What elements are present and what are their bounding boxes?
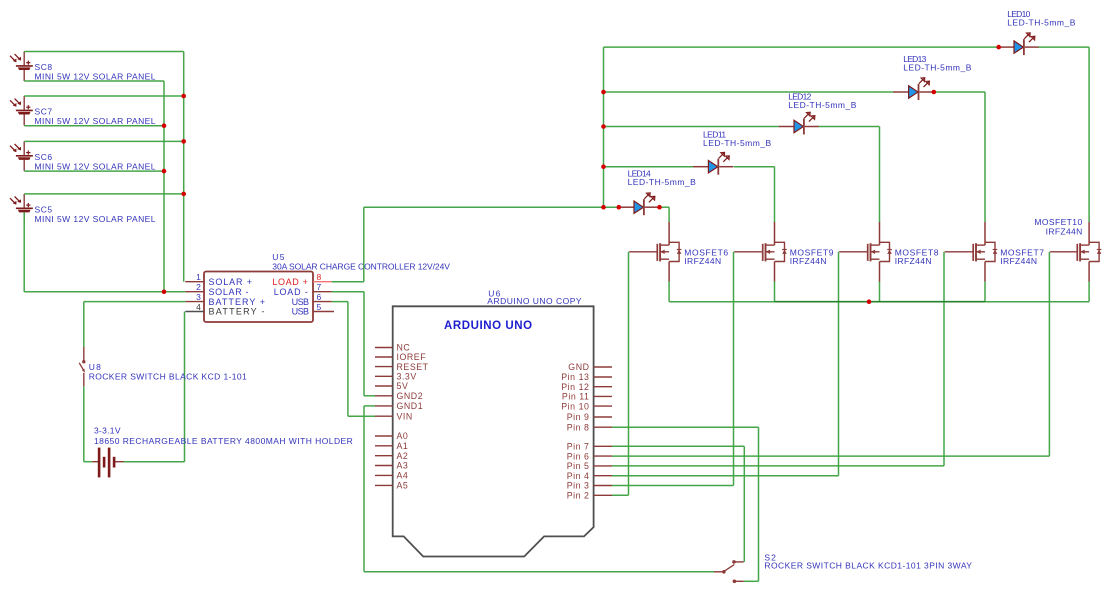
charge controller U5 box (204, 272, 313, 323)
junction LED bus 13 (601, 90, 606, 95)
U6 pin NC stub (375, 347, 393, 349)
wire Pin 3 right (612, 485, 734, 487)
junction LED14 anode (617, 205, 622, 210)
svg-text:Pin 5: Pin 5 (567, 461, 590, 471)
svg-text:4: 4 (196, 302, 201, 312)
U6 pin 3.3V stub (375, 375, 393, 377)
wire Pin 4 up to gate (838, 252, 840, 476)
wire SC5 + to bus (24, 193, 184, 195)
U6 pin RESET stub (375, 366, 393, 368)
wire Pin 6 up to gate (1048, 252, 1050, 456)
wire U5 pin8 LOAD+ right (332, 281, 364, 283)
svg-text:IRFZ44N: IRFZ44N (790, 256, 827, 266)
U6 pin Pin 4 stub (594, 475, 612, 477)
svg-text:A4: A4 (397, 471, 409, 481)
svg-text:Pin 4: Pin 4 (567, 471, 590, 481)
U5 pin 2 SOLAR - stub (185, 291, 204, 293)
solar cell SC8 (10, 52, 33, 82)
wire S2 throw B (744, 580, 759, 582)
svg-text:IRFZ44N: IRFZ44N (684, 256, 721, 266)
svg-text:NC: NC (397, 343, 411, 353)
wire SC6 - to bus (24, 170, 164, 172)
wire LED cathode to drain (934, 91, 985, 93)
U6 pin Pin 2 stub (594, 494, 612, 496)
junction source bus (867, 299, 872, 304)
wire battery left (84, 461, 92, 463)
wire MOSFET8 source drop (879, 282, 881, 302)
svg-text:Pin 2: Pin 2 (567, 491, 590, 501)
junction LED13 cathode (932, 90, 937, 95)
junction solar- pin2 (162, 290, 167, 295)
U6 pin IOREF stub (375, 356, 393, 358)
svg-text:ROCKER SWITCH BLACK KCD1-101 3: ROCKER SWITCH BLACK KCD1-101 3PIN 3WAY (764, 561, 972, 571)
U5 pin 1 SOLAR + stub (185, 281, 204, 283)
U6 pin A4 stub (375, 474, 393, 476)
wire LED11 anode (604, 166, 694, 168)
U6 pin GND2 stub (375, 395, 393, 397)
svg-text:ARDUINO UNO COPY: ARDUINO UNO COPY (487, 296, 582, 306)
wire SC8 - to bus (24, 80, 164, 82)
wire LOAD+ to LED bus (364, 206, 619, 208)
svg-text:1: 1 (196, 272, 201, 282)
solar cell SC6 (10, 141, 33, 171)
svg-text:3-3.1V: 3-3.1V (94, 426, 121, 436)
svg-text:IRFZ44N: IRFZ44N (1000, 256, 1037, 266)
wire drain drop (1088, 47, 1090, 222)
svg-text:LED-TH-5mm_B: LED-TH-5mm_B (1007, 18, 1076, 28)
wire LED12 anode (604, 126, 779, 128)
wire Pin7 down to S2 throw A (743, 446, 745, 562)
U5 pin 6 USB stub (313, 301, 332, 303)
svg-text:3.3V: 3.3V (397, 372, 417, 382)
svg-text:USB: USB (292, 307, 309, 317)
wire SC7 + to bus (24, 95, 184, 97)
wire Pin 5 right (612, 465, 944, 467)
U6 pin Pin 8 stub (594, 426, 612, 428)
wire Pin8 down to S2 (758, 427, 760, 581)
LED LED13 (893, 78, 933, 100)
wire Pin 3 up to gate (733, 252, 735, 486)
svg-text:A5: A5 (397, 481, 409, 491)
U6 pin A1 stub (375, 445, 393, 447)
svg-text:30A SOLAR CHARGE CONTROLLER 12: 30A SOLAR CHARGE CONTROLLER 12V/24V (272, 261, 450, 271)
svg-text:LED-TH-5mm_B: LED-TH-5mm_B (628, 177, 697, 187)
junction LED10 anode (996, 45, 1001, 50)
solar cell SC5 (10, 194, 33, 224)
transistor MOSFET6 IRFZ44N (629, 222, 681, 282)
svg-text:IRFZ44N: IRFZ44N (895, 256, 932, 266)
LED LED11 (693, 152, 733, 174)
wire source bus (669, 301, 1089, 303)
svg-text:MINI 5W 12V SOLAR PANEL: MINI 5W 12V SOLAR PANEL (35, 116, 156, 126)
svg-text:Pin 10: Pin 10 (561, 401, 589, 411)
wire SC7 - to bus (24, 125, 164, 127)
wire SC8 + to bus (24, 51, 184, 53)
svg-text:MINI 5W 12V SOLAR PANEL: MINI 5W 12V SOLAR PANEL (35, 72, 156, 82)
U6 pin 5V stub (375, 385, 393, 387)
wire pin7 down to GND2 (363, 292, 365, 396)
rocker switch S2 (714, 560, 744, 583)
U6 pin Pin 7 stub (594, 445, 612, 447)
wire solar - bus vertical (163, 81, 165, 292)
junction solar+ SC5 (181, 192, 186, 197)
wire solar + bus vertical (183, 52, 185, 282)
svg-text:Pin 12: Pin 12 (561, 382, 589, 392)
svg-text:GND2: GND2 (397, 391, 424, 401)
junction solar- SC7 (162, 123, 167, 128)
junction LED bus 12 (601, 124, 606, 129)
U5 pin 8 LOAD + stub (313, 281, 332, 283)
wire MOSFET7 source drop (984, 282, 986, 302)
svg-text:18650 RECHARGEABLE BATTERY 480: 18650 RECHARGEABLE BATTERY 4800MAH WITH … (94, 436, 353, 446)
wire GND1 left (364, 405, 375, 407)
wire U5 pin3 to switch (84, 301, 186, 303)
junction solar+ SC7 (181, 94, 186, 99)
U6 pin Pin 5 stub (594, 465, 612, 467)
wire LED cathode to drain (1039, 46, 1090, 48)
svg-text:LED-TH-5mm_B: LED-TH-5mm_B (903, 63, 972, 73)
svg-text:SOLAR -: SOLAR - (209, 287, 250, 297)
U6 pin A0 stub (375, 435, 393, 437)
wire LED13 anode (604, 91, 894, 93)
svg-text:BATTERY -: BATTERY - (209, 307, 266, 317)
U6 pin Pin 9 stub (594, 416, 612, 418)
svg-text:A2: A2 (397, 451, 409, 461)
wire LED cathode to drain (818, 126, 879, 128)
svg-text:GND: GND (568, 362, 589, 372)
svg-text:3: 3 (196, 292, 201, 302)
U6 pin Pin 12 stub (594, 386, 612, 388)
junction LED bus 14 (601, 205, 606, 210)
junction solar- SC6 (162, 169, 167, 174)
U5 pin 3 BATTERY + stub (185, 301, 204, 303)
LED LED12 (779, 112, 819, 134)
svg-text:LED-TH-5mm_B: LED-TH-5mm_B (788, 100, 857, 110)
svg-text:5: 5 (317, 302, 322, 312)
svg-text:Pin 13: Pin 13 (561, 372, 589, 382)
transistor MOSFET8 IRFZ44N (839, 222, 892, 282)
svg-text:USB: USB (292, 297, 309, 307)
U6 pin VIN stub (375, 415, 393, 417)
wire Pin 2 right (612, 494, 629, 496)
svg-text:ARDUINO UNO: ARDUINO UNO (444, 320, 533, 332)
svg-text:ROCKER SWITCH BLACK KCD 1-101: ROCKER SWITCH BLACK KCD 1-101 (89, 372, 248, 382)
svg-text:Pin 6: Pin 6 (567, 451, 590, 461)
U6 pin GND1 stub (375, 405, 393, 407)
wire LED cathode to drain (660, 206, 670, 208)
svg-text:Pin 3: Pin 3 (567, 481, 590, 491)
rocker switch U8 (79, 347, 85, 386)
Arduino U6 box (393, 306, 594, 556)
svg-text:U8: U8 (89, 362, 103, 372)
U6 pin GND stub (594, 366, 612, 368)
LED LED10 (999, 33, 1039, 55)
svg-text:MINI 5W 12V SOLAR PANEL: MINI 5W 12V SOLAR PANEL (35, 161, 156, 171)
wire LED cathode to drain (734, 166, 775, 168)
wire into VIN (348, 415, 375, 417)
wire SC5 - to U5 pin2 (24, 291, 185, 293)
wire drain drop (984, 92, 986, 222)
U6 pin Pin 10 stub (594, 405, 612, 407)
wire U5 pin7 right (332, 291, 364, 293)
svg-text:RESET: RESET (397, 362, 429, 372)
svg-text:6: 6 (317, 292, 322, 302)
svg-text:A3: A3 (397, 461, 409, 471)
U5 pin 7 LOAD - stub (313, 291, 332, 293)
svg-text:Pin 7: Pin 7 (567, 442, 590, 452)
svg-text:A0: A0 (397, 431, 409, 441)
solar cell SC7 (10, 96, 33, 126)
wire LED10 anode (604, 46, 999, 48)
wire drain drop (774, 167, 776, 222)
wire Pin7 right (612, 445, 744, 447)
svg-text:BATTERY +: BATTERY + (209, 297, 267, 307)
svg-text:LOAD -: LOAD - (274, 287, 309, 297)
U6 pin Pin 13 stub (594, 376, 612, 378)
wire into GND2 (364, 395, 375, 397)
wire MOSFET6 source drop (668, 282, 670, 302)
wire source bus overlap (775, 301, 986, 303)
wire SC5 - down (23, 212, 25, 291)
wire bottom to S2 common (364, 571, 714, 573)
svg-text:IOREF: IOREF (397, 352, 427, 362)
wire SC6 + to bus (24, 140, 184, 142)
wire Pin 6 right (612, 455, 1049, 457)
wire LOAD+ vertical up (363, 207, 365, 282)
svg-text:A1: A1 (397, 441, 409, 451)
junction solar+ SC6 (181, 139, 186, 144)
U6 pin Pin 3 stub (594, 485, 612, 487)
wire battery right (124, 461, 185, 463)
wire GND1 down (363, 406, 365, 572)
U5 pin 5 USB stub (313, 311, 334, 313)
wire Pin 4 right (612, 475, 839, 477)
svg-text:Pin 9: Pin 9 (567, 412, 590, 422)
battery BT 18650 (92, 448, 123, 478)
wire U5 pin6 right (332, 301, 348, 303)
U6 pin Pin 11 stub (594, 395, 612, 397)
transistor MOSFET7 IRFZ44N (945, 222, 998, 282)
wire Pin 5 up to gate (943, 252, 945, 466)
wire switch bottom vertical (83, 386, 85, 461)
U6 pin A2 stub (375, 455, 393, 457)
svg-text:SOLAR +: SOLAR + (209, 277, 253, 287)
U6 pin Pin 6 stub (594, 455, 612, 457)
svg-text:LOAD +: LOAD + (272, 277, 308, 287)
wire Pin 2 up to gate (628, 252, 630, 495)
svg-text:VIN: VIN (397, 411, 413, 421)
U6 pin A5 stub (375, 484, 393, 486)
svg-text:7: 7 (317, 282, 322, 292)
wire drain drop (879, 127, 881, 223)
U6 pin A3 stub (375, 465, 393, 467)
junction LED14 cathode (657, 205, 662, 210)
wire pin6 down to VIN (347, 302, 349, 417)
svg-text:2: 2 (196, 282, 201, 292)
wire switch top vertical (83, 302, 85, 347)
svg-text:GND1: GND1 (397, 401, 424, 411)
transistor MOSFET9 IRFZ44N (734, 222, 787, 282)
wire LED bus vertical (603, 47, 605, 207)
svg-text:MINI 5W 12V SOLAR PANEL: MINI 5W 12V SOLAR PANEL (35, 214, 156, 224)
wire MOSFET9 source drop (774, 282, 776, 302)
svg-text:Pin 8: Pin 8 (567, 422, 590, 432)
LED LED14 (619, 193, 659, 215)
svg-text:5V: 5V (397, 381, 409, 391)
svg-text:LED-TH-5mm_B: LED-TH-5mm_B (703, 138, 772, 148)
wire battery to U5 pin4 (184, 312, 186, 462)
wire Pin8 right (612, 426, 759, 428)
wire drain drop (668, 207, 670, 222)
svg-text:8: 8 (317, 272, 322, 282)
wire MOSFET10 source drop (1088, 282, 1090, 302)
transistor MOSFET10 IRFZ44N (1050, 222, 1101, 282)
U5 pin 4 BATTERY - stub (185, 311, 204, 313)
junction LED bus 11 (601, 164, 606, 169)
svg-text:IRFZ44N: IRFZ44N (1046, 226, 1083, 236)
svg-text:Pin 11: Pin 11 (562, 392, 590, 402)
